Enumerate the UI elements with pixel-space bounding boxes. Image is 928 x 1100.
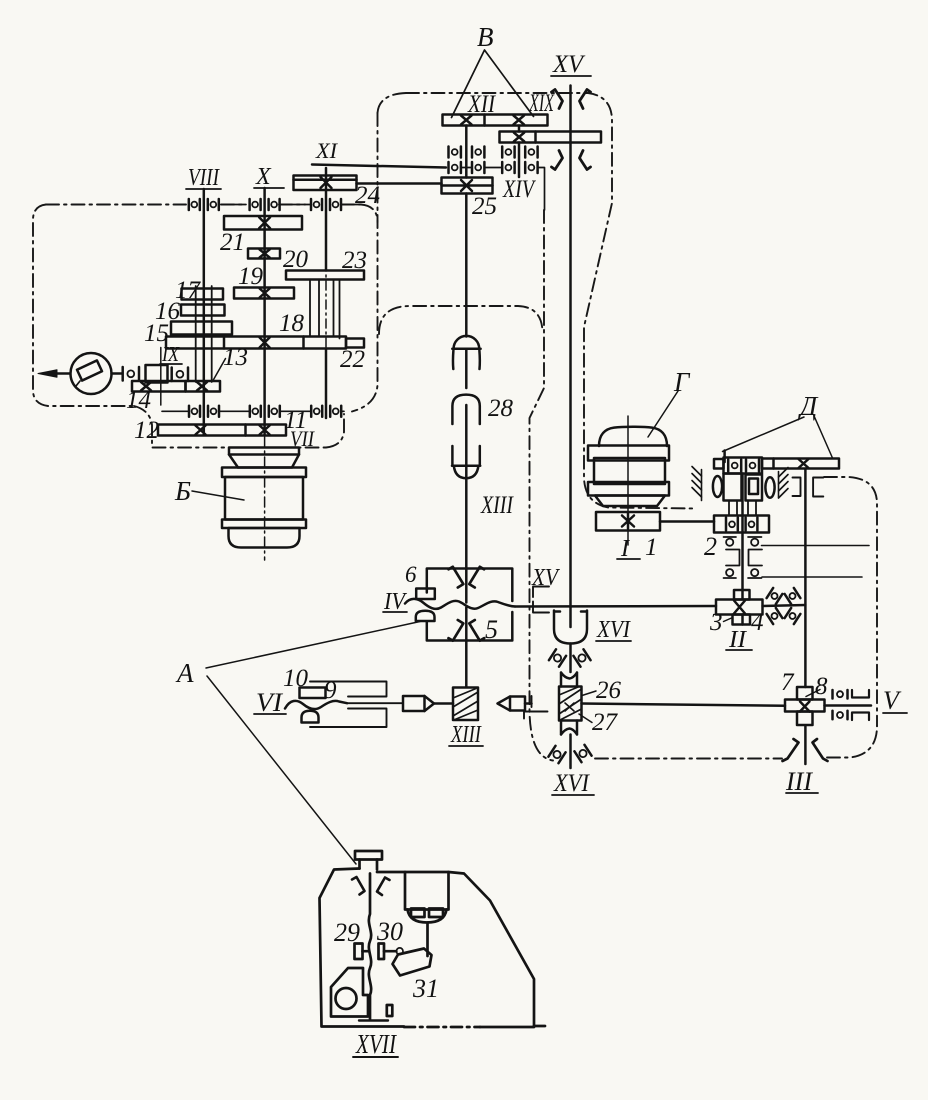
svg-text:IX: IX bbox=[161, 342, 180, 366]
bearing row bottom: shaft VIII bearings bbox=[189, 406, 219, 417]
bearing grid col4 row1 bbox=[525, 147, 537, 158]
wire: bearing housing ties and hook down bbox=[462, 168, 545, 211]
hanger block for pendulum bbox=[405, 872, 449, 923]
shaft XI dash-dot centerline through gear drum bbox=[325, 262, 327, 355]
leader to gear 13 bbox=[213, 359, 226, 381]
gear block 15-17 hub lines bbox=[196, 286, 212, 382]
electric motor B (pulley cone) bbox=[229, 448, 299, 468]
angular bearing pair upper right of gear 4 bbox=[767, 588, 783, 604]
half coupling 6 on shaft IV bbox=[416, 589, 435, 600]
clutch IX bbox=[146, 365, 168, 383]
coupling arrow right of worm bbox=[498, 697, 532, 711]
wire: gear 24 line to gear 25 bbox=[357, 182, 442, 185]
claw clutch bottom-left bbox=[449, 620, 464, 641]
half clutch piece right on shaft 29 bbox=[379, 944, 404, 960]
gear 2 with internal bearings bbox=[714, 516, 769, 533]
clutch fork above worm 26 bbox=[561, 673, 577, 687]
ground bar under shaft 29 bbox=[359, 1019, 388, 1021]
telescopic coupling 28 lower cup bbox=[452, 446, 480, 478]
svg-text:3: 3 bbox=[709, 609, 723, 636]
svg-text:III: III bbox=[785, 767, 813, 796]
wire: shaft IV line to gear block bbox=[515, 605, 805, 607]
leader D to left bearing bbox=[723, 417, 805, 452]
bearing on shaft IX left bbox=[123, 367, 139, 381]
shaft 29 wavy vertical bbox=[369, 874, 371, 1020]
svg-text:А: А bbox=[175, 658, 194, 688]
gear 18 long block bbox=[166, 337, 346, 349]
svg-text:24: 24 bbox=[355, 182, 380, 209]
shaft XIV stub bbox=[518, 126, 521, 178]
bearing row top: shaft VIII bearings bbox=[189, 199, 219, 210]
svg-text:25: 25 bbox=[472, 193, 497, 220]
claw bracket left of shaft III bbox=[783, 739, 799, 761]
svg-text:В: В bbox=[477, 22, 494, 52]
gear 21 bbox=[224, 216, 302, 230]
worm gear 26/27 bbox=[559, 687, 582, 721]
shaft IX centerline bbox=[160, 348, 162, 406]
shaft III bbox=[804, 727, 807, 765]
gear 19 bbox=[234, 288, 294, 299]
elastic coupling top pair bbox=[724, 537, 762, 546]
housing outline: bottom edge toward right enclosure bbox=[595, 726, 877, 759]
svg-text:27: 27 bbox=[592, 709, 619, 736]
wire: clutch anchor line lower bbox=[762, 576, 862, 578]
svg-text:XV: XV bbox=[552, 51, 586, 78]
shaft XV bbox=[569, 86, 572, 608]
leader A to apron box bbox=[207, 676, 356, 864]
pendulum rod bbox=[426, 923, 429, 957]
svg-text:9: 9 bbox=[324, 677, 337, 704]
bearing grid col2 row1 bbox=[472, 147, 484, 158]
housing outline: right enclosure top and side bbox=[824, 477, 877, 726]
wire: shaft VI line through nut frame bbox=[347, 702, 403, 704]
frame hatching left of clutch D bbox=[692, 467, 702, 501]
bearing on shaft IX right bbox=[172, 368, 188, 382]
motor B axis centerline bbox=[264, 437, 266, 560]
svg-text:19: 19 bbox=[238, 263, 264, 290]
svg-text:Д: Д bbox=[797, 391, 819, 421]
gear 20 bbox=[248, 249, 280, 259]
bearing on shaft V lower bbox=[833, 711, 848, 720]
coupling arrow left of worm bbox=[403, 696, 453, 711]
bearing row bottom: shaft XI bearings bbox=[311, 406, 341, 417]
wire: shaft V line from worm to bevel gears bbox=[582, 704, 786, 706]
gear 15 bbox=[171, 322, 232, 335]
housing outline: column right wall down to bottom bbox=[530, 210, 554, 761]
svg-text:VI: VI bbox=[256, 688, 283, 717]
pendulum weight 31 bbox=[393, 949, 432, 976]
gear plate D bbox=[762, 459, 839, 469]
svg-text:XVI: XVI bbox=[553, 770, 590, 797]
bearing row bottom: shaft X bearings bbox=[250, 406, 280, 417]
coil oval right bbox=[765, 477, 774, 497]
svg-text:XVI: XVI bbox=[596, 617, 631, 643]
electric motor G dome bbox=[599, 427, 667, 446]
svg-text:XII: XII bbox=[467, 91, 496, 118]
motor G axis centerline bbox=[627, 416, 629, 545]
svg-text:20: 20 bbox=[283, 246, 309, 273]
shaft XI upper bbox=[325, 168, 328, 418]
svg-text:5: 5 bbox=[485, 615, 498, 644]
svg-text:Б: Б bbox=[174, 476, 191, 506]
shaft II bbox=[741, 474, 744, 625]
wire: shaft V line right of gears bbox=[825, 704, 872, 707]
shaft D output vertical bbox=[804, 469, 807, 688]
housing outline: column left wall (shared with top head enclosure) bbox=[352, 113, 378, 412]
pump block with circle bbox=[331, 968, 368, 1017]
bearing grid col2 row2 bbox=[472, 162, 484, 173]
wire: clutch anchor line upper bbox=[762, 545, 870, 547]
leader to motor B bbox=[192, 491, 244, 500]
svg-text:VII: VII bbox=[290, 426, 315, 451]
svg-text:1: 1 bbox=[645, 534, 658, 561]
gear 14 bbox=[132, 381, 186, 392]
shaft IV wavy line bbox=[405, 599, 515, 609]
gear 23/22 drum sleeve walls bbox=[310, 280, 340, 339]
svg-text:XI: XI bbox=[315, 138, 339, 163]
coil oval left bbox=[713, 476, 722, 497]
svg-text:28: 28 bbox=[488, 395, 514, 422]
claw coupling right on shaft 29 bbox=[377, 878, 390, 896]
leader to 27 bbox=[579, 714, 592, 723]
leader D to plate bbox=[815, 417, 833, 458]
angular bearing lower right on shaft XVI bbox=[574, 745, 591, 762]
bearing row top: shaft X bearings bbox=[250, 199, 280, 210]
bearing on shaft V upper bbox=[833, 690, 848, 699]
angular bearing lower left on shaft XVI bbox=[548, 746, 565, 763]
lead screw nut frame 9 bbox=[310, 682, 387, 728]
wire: top bearing row ties bbox=[221, 204, 360, 206]
svg-text:23: 23 bbox=[342, 247, 367, 274]
svg-text:12: 12 bbox=[134, 417, 159, 444]
svg-text:8: 8 bbox=[815, 673, 828, 700]
bracket on shaft V top bbox=[852, 690, 869, 698]
svg-text:6: 6 bbox=[405, 562, 417, 587]
bevel gear 25 bbox=[442, 178, 493, 194]
bearing cup under shaft XV bbox=[554, 611, 587, 644]
svg-text:30: 30 bbox=[376, 917, 403, 946]
bracket left of shaft II output bbox=[793, 478, 801, 497]
svg-text:21: 21 bbox=[220, 229, 245, 256]
angular bearing pair lower right of gear 4 bbox=[767, 608, 783, 624]
bevel gear block 7/8 bbox=[785, 687, 825, 725]
svg-text:XIII: XIII bbox=[450, 722, 482, 748]
leader A to clutch box bbox=[206, 622, 420, 669]
shaft XIII middle section bbox=[465, 194, 468, 688]
elastic coupling bottom pair bbox=[724, 569, 762, 578]
gear 17 bbox=[182, 289, 224, 300]
half clutch D piece on shaft 29 bbox=[355, 944, 369, 960]
half coupling dome below shaft VI bbox=[302, 711, 319, 723]
svg-text:Г: Г bbox=[673, 367, 691, 397]
clutch fork below worm 27 bbox=[561, 721, 577, 735]
claw clutch top-left bbox=[449, 567, 464, 588]
bracket on shaft V bottom bbox=[852, 713, 869, 721]
elastic coupling brackets bbox=[726, 550, 762, 566]
leader to 26 bbox=[582, 691, 596, 696]
svg-text:2: 2 bbox=[704, 532, 717, 561]
electromagnetic clutch body right bbox=[746, 475, 763, 501]
wire: bottom bearing row ties bbox=[162, 410, 344, 412]
half coupling 10 on shaft VI bbox=[300, 688, 326, 699]
bearing housing on clutch D bbox=[724, 458, 763, 474]
svg-text:22: 22 bbox=[340, 346, 365, 373]
universal joint cap on shaft XIII bbox=[452, 336, 480, 369]
claw bracket right of shaft III bbox=[813, 739, 828, 761]
electromagnetic clutch body left bbox=[724, 474, 742, 501]
svg-text:4: 4 bbox=[751, 609, 764, 636]
bearing grid col1 row1 bbox=[449, 147, 461, 158]
leader to 8 bbox=[806, 690, 820, 697]
svg-text:13: 13 bbox=[223, 344, 248, 371]
svg-text:XVII: XVII bbox=[355, 1029, 397, 1059]
bearing grid col3 row1 bbox=[502, 147, 514, 158]
svg-text:26: 26 bbox=[596, 677, 622, 704]
svg-text:VIII: VIII bbox=[188, 165, 220, 191]
housing outline: top head enclosure bbox=[378, 93, 696, 509]
shaft VIII bbox=[203, 189, 206, 435]
gear block 3/4 bbox=[716, 590, 763, 625]
shaft X bbox=[263, 188, 266, 435]
end cap on clutch D shaft bbox=[714, 459, 724, 469]
shaft XV stub into cup bbox=[569, 607, 572, 627]
bearing grid col4 row2 bbox=[525, 162, 537, 173]
claw clutch bottom-right bbox=[469, 620, 484, 641]
claw coupling on shaft XV second right bbox=[580, 151, 591, 170]
claw coupling on shaft XV upper right bbox=[580, 90, 591, 109]
clutch box 5/6 housing bbox=[427, 569, 513, 641]
svg-text:31: 31 bbox=[412, 974, 439, 1003]
bearing grid col1 row2 bbox=[449, 162, 461, 173]
housing outline: left gearbox enclosure bbox=[46, 205, 378, 223]
gear 24 bbox=[294, 176, 357, 191]
shaft XIII upper bbox=[465, 126, 468, 178]
small block right of shaft 29 foot bbox=[387, 1005, 393, 1016]
bracket right of shaft II output bbox=[813, 478, 823, 497]
svg-text:V: V bbox=[883, 686, 902, 715]
claw coupling on shaft XV upper left bbox=[552, 90, 563, 109]
svg-text:10: 10 bbox=[283, 665, 309, 692]
gear 22 bbox=[346, 339, 364, 348]
gear block 11/12 bbox=[158, 425, 286, 436]
svg-text:XIII: XIII bbox=[480, 492, 514, 519]
shaft VI wavy line bbox=[285, 701, 347, 709]
angular bearing right above worm 26 bbox=[573, 649, 590, 666]
pin stub on clutch D bbox=[723, 451, 726, 463]
gear 13 bbox=[186, 381, 221, 392]
bearing row top: shaft XI bearings bbox=[311, 199, 341, 210]
electric motor G body bbox=[588, 446, 669, 507]
bearing grid col3 row2 bbox=[502, 162, 514, 173]
gear 1 bbox=[596, 512, 660, 531]
housing outline: column bridge top edge bbox=[379, 306, 543, 334]
svg-text:14: 14 bbox=[126, 387, 151, 414]
svg-text:X: X bbox=[255, 164, 272, 190]
leader to 3 bbox=[724, 618, 732, 622]
apron box cap bbox=[355, 851, 382, 870]
svg-text:18: 18 bbox=[279, 310, 305, 337]
bracket under coupling near column wall bbox=[524, 696, 548, 719]
telescopic coupling 28 upper fork bbox=[452, 395, 479, 424]
svg-text:XIV: XIV bbox=[502, 176, 536, 203]
claw clutch top-right bbox=[469, 567, 484, 588]
apron box XVII outline bbox=[320, 869, 535, 1028]
gear on shaft XIV bbox=[500, 132, 602, 143]
bracket at XV foot bbox=[533, 587, 549, 613]
shaft XVI bbox=[569, 644, 572, 769]
svg-text:7: 7 bbox=[781, 669, 795, 696]
svg-text:XV: XV bbox=[531, 565, 560, 591]
svg-text:XIX: XIX bbox=[528, 90, 555, 117]
worm on shaft XIII bbox=[453, 688, 478, 721]
wire: line gear 1 to gear 2 bbox=[660, 520, 714, 523]
wire: shaft XI output line to bevel head bbox=[312, 165, 446, 168]
gear 23 bbox=[286, 271, 364, 280]
gear 16 bbox=[181, 305, 225, 316]
gear block XII / XIX bbox=[443, 115, 548, 126]
belt drive B triangle legs bbox=[452, 50, 534, 118]
clutch hub legs bbox=[729, 501, 756, 516]
svg-text:29: 29 bbox=[334, 918, 360, 947]
claw coupling on shaft XV second left bbox=[552, 151, 563, 170]
electric motor B body bbox=[222, 468, 306, 548]
tachometer instrument bbox=[38, 353, 122, 394]
claw coupling left on shaft 29 bbox=[352, 877, 365, 895]
angular bearing left above worm 26 bbox=[549, 649, 566, 666]
frame hatching right of clutch D bbox=[779, 468, 789, 499]
half coupling dome below shaft IV bbox=[416, 611, 435, 621]
leader to motor G bbox=[648, 391, 678, 437]
svg-text:IV: IV bbox=[383, 589, 407, 615]
